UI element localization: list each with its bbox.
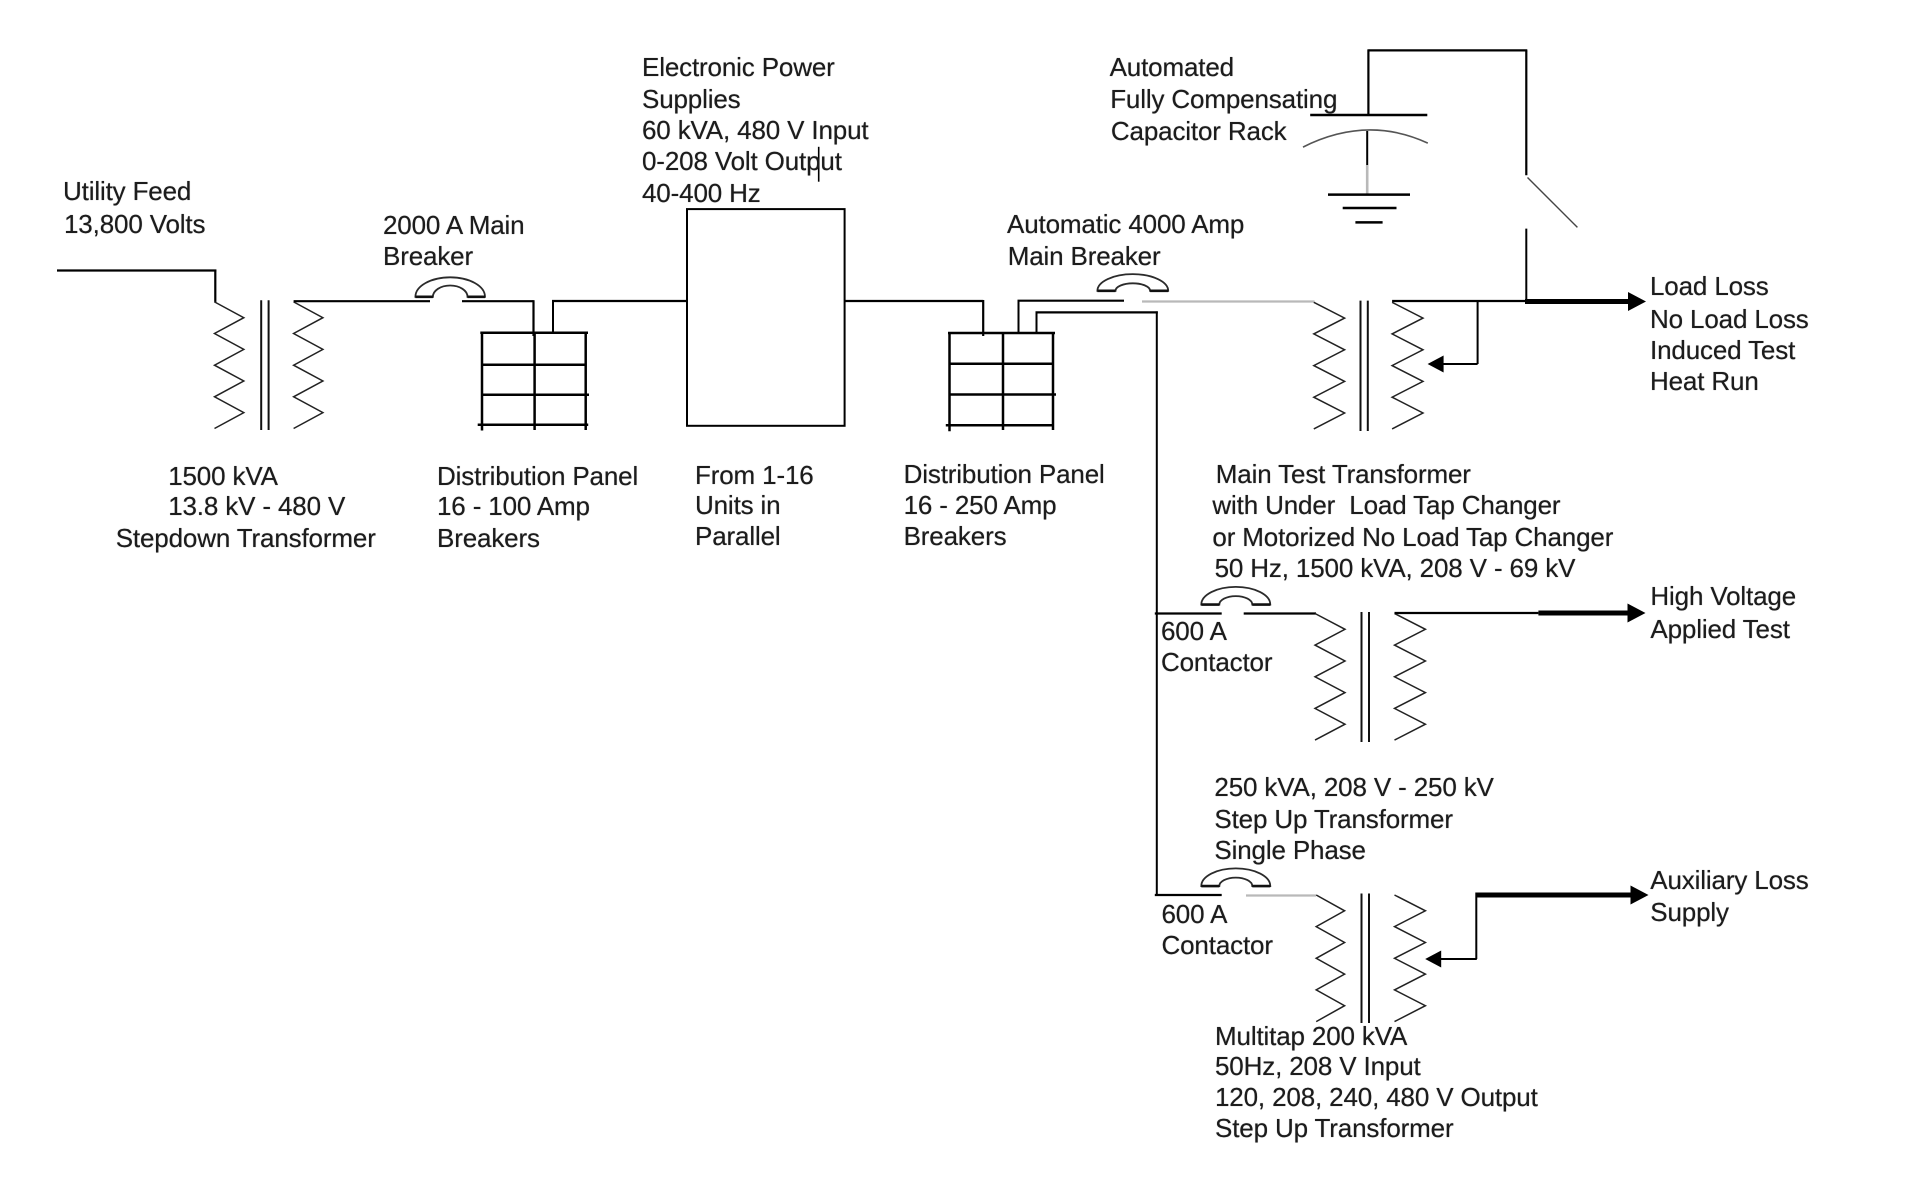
- wire main test transformer secondary to load-loss arrow: [1392, 300, 1529, 302]
- switch blade (open disconnect): [1528, 178, 1578, 228]
- transformer T1 secondary winding (480 V): [294, 302, 323, 429]
- capacitor C top plate: [1310, 114, 1427, 117]
- main test transformer core: [1360, 301, 1362, 431]
- wire utility feed drop to transformer T1: [214, 270, 216, 303]
- label From 1-16 Units in Parallel: [695, 460, 814, 491]
- wire contactor 1 to step-up transformer T2: [1244, 612, 1316, 614]
- arrow into main test transformer winding (tap): [1443, 363, 1478, 365]
- label 600 A Contactor 1: [1161, 616, 1227, 647]
- transformer T3 core: [1361, 894, 1363, 1024]
- distribution panel 1 (16 - 100 Amp breakers) grid box: [478, 333, 589, 431]
- wire drop into distribution panel 2: [982, 300, 984, 336]
- main test transformer primary winding: [1314, 302, 1345, 429]
- wire switch to load-loss node: [1525, 229, 1527, 303]
- label Load Loss outputs: [1650, 271, 1769, 302]
- wire distribution panel 2 to 4000A breaker: [1018, 301, 1020, 333]
- breaker 2000 A Main Breaker arc symbol: [415, 277, 485, 297]
- label Utility Feed: [63, 176, 191, 207]
- transformer T2 primary winding: [1315, 614, 1345, 741]
- label 250 kVA step up transformer: [1214, 772, 1493, 803]
- capacitor rack left drop wire: [1367, 49, 1369, 115]
- wire distribution panel 1 to electronic power supplies box: [552, 301, 554, 333]
- label Auxiliary Loss Supply: [1650, 865, 1808, 896]
- label 1500 kVA stepdown transformer: [168, 461, 278, 492]
- label Multitap 200 kVA transformer: [1215, 1021, 1407, 1052]
- label Distribution Panel 16-100: [437, 461, 638, 492]
- wire bus to 600A contactor 1: [1155, 612, 1222, 614]
- ground symbol: [1328, 193, 1410, 196]
- capacitor to ground wire (black part): [1366, 131, 1368, 165]
- electronic power supplies box: [687, 209, 845, 426]
- contactor 600 A #2 arc symbol: [1201, 868, 1270, 886]
- arrow into T3 winding (tap): [1441, 958, 1477, 960]
- wire T1 secondary to 2000A breaker: [294, 300, 430, 302]
- transformer T2 core: [1361, 612, 1363, 742]
- arrow Load Loss output (thick): [1525, 299, 1628, 304]
- wire 2000A breaker to distribution panel 1: [462, 300, 534, 302]
- label 600 A Contactor 2: [1162, 899, 1228, 930]
- main test transformer secondary winding: [1392, 302, 1423, 429]
- distribution panel 2 (16 - 250 Amp breakers) grid box: [946, 333, 1056, 431]
- wire drop to T3 tap arrow: [1475, 893, 1477, 960]
- label Distribution Panel 16-250: [904, 459, 1105, 490]
- label Automatic 4000 Amp Main Breaker: [1007, 209, 1244, 240]
- vertical bus down to contactors: [1156, 311, 1158, 896]
- arrow High Voltage Applied Test (thick): [1538, 611, 1628, 616]
- contactor 600 A #1 arc symbol: [1201, 587, 1270, 605]
- capacitor C curved plate: [1303, 130, 1428, 147]
- transformer T1 core: [260, 300, 262, 430]
- wire (gray) 4000A breaker to main test transformer: [1142, 300, 1315, 302]
- wire (gray) contactor 2 to multitap transformer T3: [1246, 894, 1316, 896]
- label Automated Fully Compensating Capacitor Rack: [1110, 52, 1234, 83]
- breaker Automatic 4000 Amp Main Breaker arc symbol: [1097, 274, 1168, 291]
- transformer T3 secondary winding: [1395, 895, 1426, 1022]
- wire distribution panel 2 through-tap: [1036, 312, 1038, 332]
- capacitor rack right drop wire: [1525, 50, 1527, 175]
- wire T2 secondary to high voltage arrow: [1395, 612, 1539, 614]
- transformer T2 secondary winding: [1395, 614, 1426, 741]
- arrow Auxiliary Loss Supply (thick): [1476, 893, 1634, 898]
- text caret artifact in 0-208 Volt Output: [818, 147, 820, 182]
- label 2000 A Main Breaker: [383, 210, 524, 241]
- capacitor to ground wire (gray part): [1366, 165, 1369, 195]
- wire drop into distribution panel 1: [532, 300, 534, 336]
- label High Voltage Applied Test: [1650, 581, 1796, 612]
- transformer T1 primary winding (13.8 kV): [215, 302, 244, 429]
- wire utility feed horizontal: [57, 269, 216, 271]
- wire bus to 600A contactor 2: [1155, 894, 1222, 896]
- wire drop to induced-test tap arrow: [1477, 300, 1479, 364]
- label Main Test Transformer: [1216, 459, 1471, 490]
- label Electronic Power Supplies: [642, 52, 835, 83]
- transformer T3 primary winding: [1316, 895, 1344, 1022]
- capacitor rack top wire: [1368, 49, 1527, 51]
- wire EPS box to distribution panel 2: [845, 300, 984, 302]
